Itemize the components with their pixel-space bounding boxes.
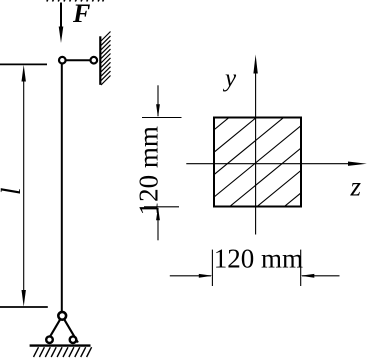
svg-text:120 mm: 120 mm bbox=[214, 244, 303, 274]
dimension l: bottom reference line bbox=[0, 306, 48, 308]
force F arrow bbox=[59, 3, 64, 44]
left dim: top extension line bbox=[142, 117, 182, 119]
bottom pin circle bbox=[58, 312, 66, 320]
bottom dim: left extension line bbox=[211, 250, 213, 286]
bottom dim: dimension line with arrows bbox=[170, 274, 340, 278]
svg-text:F: F bbox=[72, 0, 90, 28]
wall hatching bbox=[101, 32, 111, 86]
svg-text:z: z bbox=[350, 172, 362, 202]
ground hatching bbox=[34, 347, 92, 357]
section hatching bbox=[206, 52, 309, 271]
top pin circle bbox=[59, 57, 66, 64]
bottom support legs bbox=[47, 316, 78, 343]
column (vertical bar) bbox=[61, 60, 63, 316]
wall line bbox=[99, 36, 101, 85]
link bar to wall bbox=[62, 59, 94, 61]
bottom dim: right extension line bbox=[300, 250, 302, 286]
z axis bbox=[186, 162, 366, 166]
cross-section square bbox=[214, 118, 301, 207]
svg-text:l: l bbox=[0, 188, 26, 196]
ground line bbox=[30, 344, 91, 346]
y axis bbox=[253, 55, 257, 235]
right roller circle bbox=[70, 336, 77, 343]
wall pin circle bbox=[91, 57, 98, 64]
dimension l: dimension line with arrows bbox=[22, 65, 26, 307]
svg-text:120 mm: 120 mm bbox=[133, 126, 163, 215]
left dim: dimension line with arrows bbox=[156, 85, 160, 240]
left dim: bottom extension line bbox=[144, 206, 179, 208]
svg-text:y: y bbox=[222, 65, 237, 92]
dimension l: top reference line bbox=[0, 63, 47, 65]
top cropped hatch ticks bbox=[47, 0, 104, 2]
left roller circle bbox=[46, 336, 53, 343]
